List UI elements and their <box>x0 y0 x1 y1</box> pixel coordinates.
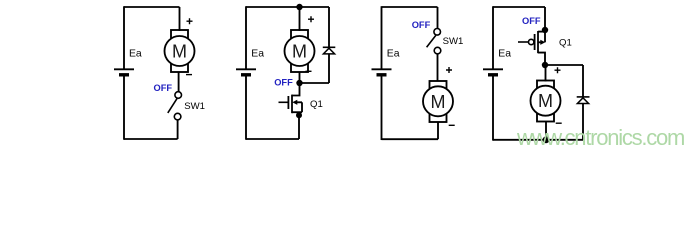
wire left (circuit 1) <box>123 6 125 140</box>
label + (circuit 3) <box>446 67 452 73</box>
svg-text:Q1: Q1 <box>559 38 572 49</box>
wire drain to motor (circuit 4) <box>545 65 547 82</box>
wire motor to switch (circuit 1) <box>178 72 180 92</box>
wire drain node to diode (circuit 2) <box>300 82 330 84</box>
diode (circuit 2) <box>323 7 336 83</box>
svg-text:M: M <box>292 42 307 62</box>
wire left (circuit 2) <box>245 6 247 140</box>
transistor Q1 NMOS (circuit 2) <box>279 83 303 113</box>
wire switch to motor (circuit 3) <box>437 54 439 82</box>
label + (circuit 1) <box>187 18 193 24</box>
svg-text:www.cntronics.com: www.cntronics.com <box>516 125 684 150</box>
junction node drain (circuit 4) <box>542 62 548 68</box>
wire top (circuit 3) <box>382 6 438 8</box>
motor M (circuit 1) <box>165 30 195 72</box>
battery Ea (circuit 1) <box>114 69 134 75</box>
svg-text:Ea: Ea <box>387 49 400 60</box>
junction node bottom (circuit 4) <box>543 136 550 143</box>
svg-text:SW1: SW1 <box>184 101 205 112</box>
svg-text:Q1: Q1 <box>310 99 323 110</box>
switch SW1 (circuit 1) <box>168 92 182 120</box>
label - (circuit 4) <box>556 122 562 124</box>
wire bottom (circuit 4) <box>493 139 583 141</box>
wire bottom (circuit 3) <box>382 138 439 140</box>
motor M (circuit 2) <box>285 30 315 72</box>
svg-text:OFF: OFF <box>522 16 541 26</box>
svg-text:Ea: Ea <box>129 49 142 60</box>
svg-text:SW1: SW1 <box>443 36 464 47</box>
battery Ea (circuit 2) <box>236 69 256 75</box>
svg-text:OFF: OFF <box>154 83 173 93</box>
battery Ea (circuit 3) <box>372 69 392 75</box>
wire bottom (circuit 1) <box>124 138 178 140</box>
label - (circuit 3) <box>449 124 455 126</box>
wire top to source node (circuit 4) <box>544 7 546 30</box>
label - (circuit 1) <box>186 74 192 76</box>
wire node to motor (circuit 2) <box>299 7 301 31</box>
motor M (circuit 4) <box>531 81 561 122</box>
wire drain node to diode (circuit 4) <box>545 64 583 66</box>
wire motor to bottom node (circuit 4) <box>545 121 547 140</box>
wire bottom (circuit 2) <box>246 138 299 140</box>
svg-text:Ea: Ea <box>498 49 511 60</box>
svg-text:M: M <box>172 42 187 62</box>
svg-text:M: M <box>538 91 553 111</box>
junction node drain (circuit 2) <box>296 80 302 86</box>
label + (circuit 4) <box>555 67 561 73</box>
junction node (circuit 2 top) <box>296 4 302 10</box>
wire switch to bottom (circuit 1) <box>177 120 179 139</box>
transistor Q1 PMOS (circuit 4) <box>518 30 545 65</box>
wire top to switch (circuit 3) <box>437 7 439 29</box>
wire motor to drain node (circuit 2) <box>299 72 301 83</box>
diode (circuit 4) <box>577 65 590 140</box>
junction node source (circuit 4) <box>542 27 548 33</box>
label - (circuit 2) <box>306 70 312 72</box>
wire top (circuit 2) <box>246 6 329 8</box>
wire top (circuit 1) <box>124 6 180 8</box>
svg-text:OFF: OFF <box>412 20 431 30</box>
wire source to bottom (circuit 2) <box>298 113 300 139</box>
svg-text:M: M <box>431 92 446 112</box>
label + (circuit 2) <box>308 16 314 22</box>
wire left (circuit 3) <box>381 6 383 140</box>
switch SW1 (circuit 3) <box>427 29 441 54</box>
motor M (circuit 3) <box>423 81 453 122</box>
wire left (circuit 4) <box>492 6 494 140</box>
wire top (circuit 4) <box>493 6 545 8</box>
svg-text:OFF: OFF <box>274 78 293 88</box>
junction node source (circuit 2) <box>296 112 302 118</box>
battery Ea (circuit 4) <box>483 69 503 75</box>
wire motor drop (circuit 1) <box>179 7 181 31</box>
svg-text:Ea: Ea <box>251 49 264 60</box>
wire motor to bottom (circuit 3) <box>437 122 439 139</box>
